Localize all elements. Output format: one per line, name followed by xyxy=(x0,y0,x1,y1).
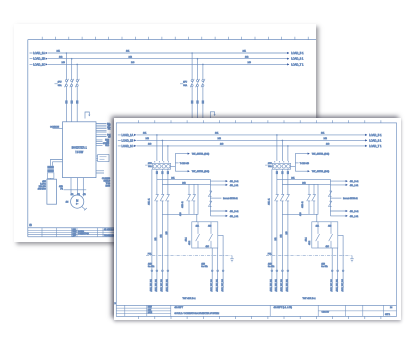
inverter U1 box xyxy=(63,122,97,178)
disconnect/fuse pole 3 xyxy=(201,64,205,119)
svg-text:DRW: DRW xyxy=(147,306,151,308)
svg-text:LOAD_3 1: LOAD_3 1 xyxy=(291,57,304,61)
bus line L1 xyxy=(30,51,305,55)
svg-text:242: 242 xyxy=(59,56,63,58)
inverter bypass block 2 xyxy=(265,134,359,300)
inverter aux terminal sub-box xyxy=(96,155,109,162)
svg-text:241: 241 xyxy=(143,132,147,134)
title block small texts xyxy=(72,229,115,237)
svg-text:243: 243 xyxy=(248,62,252,64)
shield hook symbol near inverter 1 xyxy=(85,112,90,119)
svg-text:241: 241 xyxy=(243,51,247,53)
bus line L2 xyxy=(30,56,304,60)
svg-text:1FU: 1FU xyxy=(58,82,62,84)
svg-text:241: 241 xyxy=(215,132,219,134)
svg-text:RS05: RS05 xyxy=(106,186,111,188)
bus line L3 xyxy=(30,62,304,66)
svg-text:M: M xyxy=(76,198,78,202)
svg-text:LOAD_3 1: LOAD_3 1 xyxy=(369,138,382,142)
svg-text:242: 242 xyxy=(217,138,221,140)
svg-text:243: 243 xyxy=(326,143,330,145)
svg-text:4MD: 4MD xyxy=(59,186,63,188)
svg-text:CLO: CLO xyxy=(105,145,109,147)
motor label 4M xyxy=(66,202,69,204)
svg-text:243: 243 xyxy=(62,62,66,64)
inverter bypass block 1 xyxy=(145,134,239,300)
brake resistor feed wires xyxy=(50,160,62,166)
svg-text:241: 241 xyxy=(126,51,130,53)
svg-text:LOAD_B 1: LOAD_B 1 xyxy=(291,51,304,55)
svg-text:241: 241 xyxy=(321,132,325,134)
motor M1 wires xyxy=(71,178,86,197)
svg-text:INVERTER 1: INVERTER 1 xyxy=(72,145,88,149)
resistor terminal blocks xyxy=(47,166,54,179)
svg-text:243: 243 xyxy=(220,143,224,145)
fuse label xyxy=(55,82,63,87)
fuse label xyxy=(180,82,188,87)
sheet 2 (foreground schematic page) xyxy=(114,118,401,320)
sheet2 title texts xyxy=(147,306,392,315)
svg-text:LOAD_1A: LOAD_1A xyxy=(33,51,45,55)
sheet1 title block xyxy=(28,228,316,237)
svg-text:241: 241 xyxy=(57,51,61,53)
svg-text:243: 243 xyxy=(131,62,135,64)
svg-text:CONESTOGA: CONESTOGA xyxy=(78,232,90,235)
disconnect/fuse pole 1 xyxy=(65,52,69,122)
svg-text:SHT 1: SHT 1 xyxy=(385,314,390,316)
svg-text:30A: 30A xyxy=(183,84,187,87)
svg-text:3~: 3~ xyxy=(76,203,79,205)
svg-text:242: 242 xyxy=(129,56,133,58)
svg-text:LOAD_1A: LOAD_1A xyxy=(121,132,133,136)
zone letter B xyxy=(114,303,116,305)
sheet2 bus line L1 xyxy=(117,132,381,136)
brake resistor DB4 xyxy=(47,179,57,204)
svg-text:243: 243 xyxy=(148,143,152,145)
svg-text:LOAD_1B: LOAD_1B xyxy=(121,138,133,142)
svg-text:242: 242 xyxy=(145,138,149,140)
svg-text:LOAD_T 1: LOAD_T 1 xyxy=(291,62,304,66)
svg-text:CIRCUIT: CIRCUIT xyxy=(321,311,330,313)
svg-text:242: 242 xyxy=(323,138,327,140)
caption above title block left xyxy=(0,0,1,1)
disconnect/fuse pole 3 xyxy=(75,64,79,122)
svg-text:4T3: 4T3 xyxy=(83,194,86,196)
sheet1 top border ruler ticks xyxy=(42,37,308,40)
shield hook symbol near inverter 2 xyxy=(210,112,215,118)
svg-text:LOAD_T 1: LOAD_T 1 xyxy=(369,143,382,147)
svg-text:GOULD / CONESTOGA INVERTER SYS: GOULD / CONESTOGA INVERTER SYSTEM xyxy=(174,312,219,315)
sheet2 title block xyxy=(116,305,396,316)
svg-text:4T1: 4T1 xyxy=(71,194,74,196)
PE wire xyxy=(59,186,86,191)
svg-text:7.5 KW: 7.5 KW xyxy=(75,151,84,154)
DB4 labels xyxy=(38,181,47,191)
disconnect/fuse pole 2 xyxy=(70,58,74,122)
svg-text:COMMON: COMMON xyxy=(50,127,59,129)
svg-text:PE: PE xyxy=(60,189,63,191)
svg-text:242: 242 xyxy=(245,56,249,58)
svg-text:CHK: CHK xyxy=(147,309,151,311)
svg-text:4H-DEPT: 4H-DEPT xyxy=(174,307,183,309)
zone label (1) xyxy=(29,225,32,227)
inverter lower right labels xyxy=(102,178,111,188)
inverter right side pins xyxy=(96,123,111,173)
svg-text:LOAD_1C: LOAD_1C xyxy=(121,143,133,147)
svg-text:4M: 4M xyxy=(66,202,69,204)
svg-text:(1): (1) xyxy=(29,225,32,227)
disconnect/fuse pole 1 xyxy=(190,52,194,118)
disconnect/fuse pole 2 xyxy=(196,58,200,118)
svg-text:SD: SD xyxy=(108,136,111,138)
svg-text:30A: 30A xyxy=(58,84,62,87)
svg-text:LOAD_1C: LOAD_1C xyxy=(33,62,45,66)
sheet2 ruler ticks xyxy=(138,120,380,319)
svg-text:24: 24 xyxy=(390,307,393,309)
sheet1 border frame xyxy=(28,40,316,237)
motor shaft tick xyxy=(82,207,87,211)
svg-text:40W 1500: 40W 1500 xyxy=(38,188,46,190)
svg-text:1FU: 1FU xyxy=(183,82,187,84)
svg-text:4H-DEPT (1-1, 1-75): 4H-DEPT (1-1, 1-75) xyxy=(273,307,292,309)
motor M1 xyxy=(71,195,84,208)
sheet 1 (background schematic page) xyxy=(14,24,316,242)
svg-text:LOAD_1B: LOAD_1B xyxy=(33,57,45,61)
sheet2 border frame xyxy=(116,122,396,316)
svg-text:S5-: S5- xyxy=(108,129,111,131)
sheet2 bus line L3 xyxy=(117,143,381,147)
sheet2 bus line L2 xyxy=(117,138,381,142)
inverter left pin COMMON xyxy=(50,127,62,129)
svg-text:LOAD_B 1: LOAD_B 1 xyxy=(369,132,382,136)
